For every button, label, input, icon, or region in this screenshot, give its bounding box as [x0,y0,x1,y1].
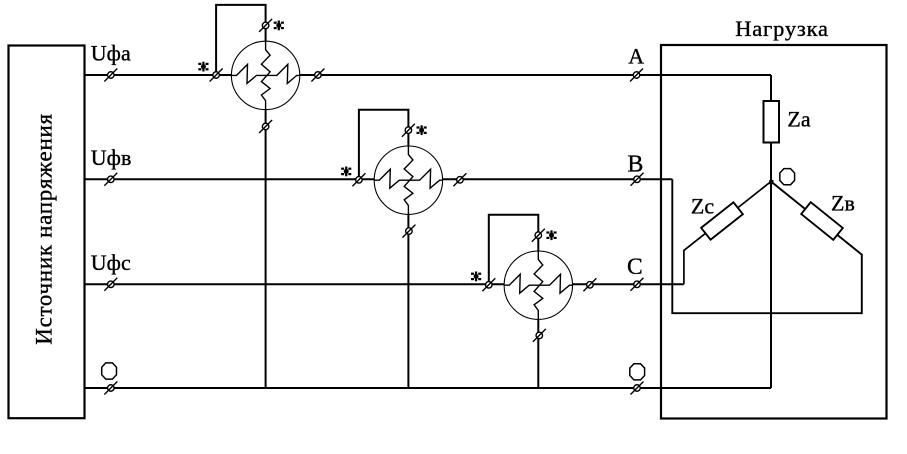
svg-text:B: B [627,152,643,178]
svg-text:Uфа: Uфа [91,41,131,66]
svg-text:Uфс: Uфс [91,250,131,275]
svg-text:Uфв: Uфв [91,145,132,170]
svg-text:Нагрузка: Нагрузка [735,16,829,41]
svg-text:Zc: Zc [691,193,714,218]
svg-text:Источник напряжения: Источник напряжения [32,113,57,344]
svg-text:C: C [627,254,643,280]
svg-text:Zв: Zв [831,190,855,215]
svg-text:Za: Za [787,106,810,131]
svg-text:A: A [628,44,644,69]
